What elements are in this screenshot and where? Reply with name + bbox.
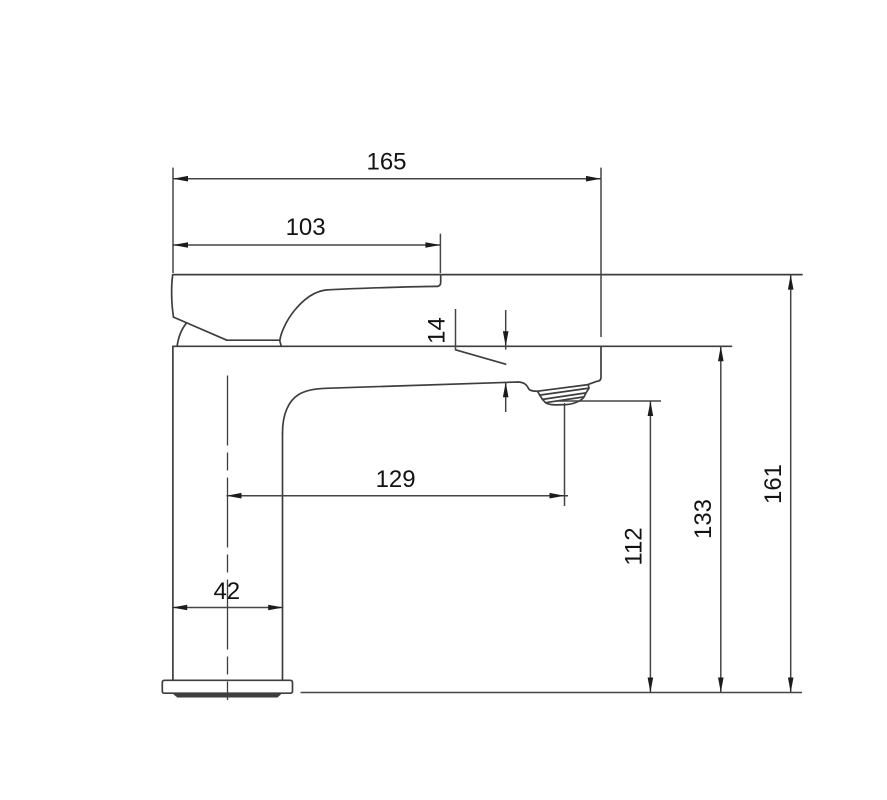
handle left edge: [172, 275, 174, 317]
dim 103 right extension: [439, 234, 441, 273]
spout top slope: [456, 350, 506, 364]
arrow 161 top: [788, 275, 794, 290]
aerator band 2: [540, 388, 589, 399]
svg-text:161: 161: [760, 464, 787, 504]
arrow 14 up: [503, 382, 509, 397]
arrow 161 bottom: [788, 678, 794, 693]
arrow 42 left: [172, 605, 187, 611]
dim 112 line: [649, 401, 651, 693]
svg-text:165: 165: [366, 149, 406, 176]
arrow 103 left: [173, 242, 188, 248]
arrow 103 right: [425, 242, 440, 248]
lever right end: [438, 275, 441, 287]
dim 165 left extension: [172, 168, 174, 273]
neck top line: [227, 339, 280, 341]
svg-text:129: 129: [376, 466, 416, 493]
body left edge: [172, 346, 174, 680]
dim 103 line: [173, 244, 440, 246]
spout tip right edge: [588, 347, 601, 385]
dim 129 line: [227, 495, 569, 497]
arrow 112 bottom: [648, 678, 654, 693]
spout underside curve: [283, 388, 326, 433]
arrow 129 left: [227, 493, 242, 499]
aerator bottom edge: [546, 397, 585, 405]
arrow 129 right: [550, 493, 565, 499]
aerator band 3: [543, 393, 587, 403]
flange: [162, 680, 292, 693]
svg-text:42: 42: [213, 578, 240, 605]
arrow 133 top: [718, 346, 724, 361]
spout tip step: [518, 382, 539, 391]
dim 133 line: [720, 346, 722, 692]
dim 165 line: [173, 178, 601, 180]
handle front slope: [174, 317, 227, 340]
aerator band 1: [538, 385, 590, 396]
spout underside line: [326, 382, 518, 388]
arrow 133 bottom: [718, 678, 724, 693]
svg-text:14: 14: [424, 317, 451, 344]
notch drop to body: [280, 340, 282, 346]
arrow 42 right: [268, 605, 283, 611]
arrow 112 top: [648, 401, 654, 416]
dim 161 line: [790, 275, 792, 693]
dim 112 extension: [557, 400, 661, 402]
svg-text:103: 103: [286, 214, 326, 241]
arrow 165 left: [173, 176, 188, 182]
dim 129 right extension: [564, 403, 566, 506]
handle underside curve: [280, 286, 438, 340]
arrow 14 down: [503, 331, 509, 346]
svg-text:112: 112: [621, 527, 648, 565]
arrow 165 right: [586, 176, 601, 182]
svg-text:133: 133: [690, 499, 717, 539]
centerline: [227, 376, 229, 701]
dim 14 lower arrow line: [505, 382, 507, 412]
gasket under flange: [174, 694, 282, 697]
dim 14 upper arrow line: [505, 310, 507, 350]
faucet body top line / 133 extension: [173, 345, 732, 347]
dim 14 extension: [455, 309, 457, 350]
dim 165 right extension: [600, 168, 602, 337]
dim 42 line: [172, 607, 283, 609]
ground baseline: [301, 692, 803, 694]
column right edge: [282, 433, 284, 680]
handle tip arc: [177, 323, 187, 347]
faucet top line / 161 extension: [173, 274, 802, 276]
